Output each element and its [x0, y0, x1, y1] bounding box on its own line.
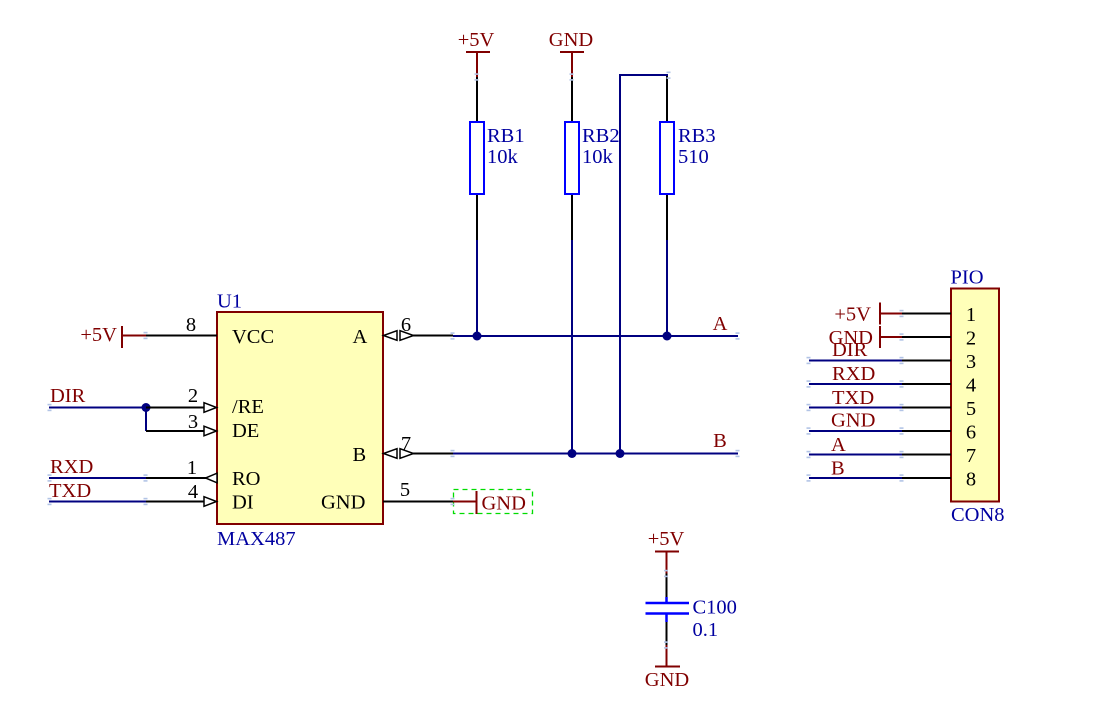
svg-text:DE: DE: [232, 420, 259, 442]
svg-text:B: B: [353, 444, 367, 466]
svg-text:3: 3: [188, 411, 198, 433]
svg-text:2: 2: [966, 328, 976, 350]
svg-text:RXD: RXD: [50, 456, 93, 478]
svg-text:RXD: RXD: [832, 363, 875, 385]
svg-text:RB3: RB3: [678, 125, 716, 147]
svg-text:8: 8: [966, 469, 976, 491]
svg-text:RB1: RB1: [487, 125, 525, 147]
svg-text:A: A: [353, 326, 368, 348]
svg-text:1: 1: [966, 304, 976, 326]
svg-text:0.1: 0.1: [693, 619, 719, 641]
svg-text:PIO: PIO: [951, 267, 984, 289]
svg-text:DIR: DIR: [50, 385, 86, 407]
svg-text:5: 5: [400, 479, 410, 501]
svg-text:+5V: +5V: [648, 528, 685, 550]
svg-text:4: 4: [188, 481, 198, 503]
svg-text:/RE: /RE: [232, 396, 264, 418]
svg-text:6: 6: [966, 422, 976, 444]
svg-text:GND: GND: [549, 29, 593, 51]
svg-text:GND: GND: [645, 669, 689, 691]
svg-text:+5V: +5V: [458, 29, 495, 51]
svg-text:+5V: +5V: [834, 304, 871, 326]
svg-text:5: 5: [966, 398, 976, 420]
svg-text:A: A: [713, 313, 728, 335]
svg-text:3: 3: [966, 351, 976, 373]
svg-text:A: A: [831, 434, 846, 456]
svg-text:VCC: VCC: [232, 326, 274, 348]
svg-text:8: 8: [186, 314, 196, 336]
svg-text:MAX487: MAX487: [217, 528, 296, 550]
svg-text:GND: GND: [321, 492, 365, 514]
svg-text:10k: 10k: [582, 146, 614, 168]
svg-text:+5V: +5V: [80, 324, 117, 346]
svg-text:B: B: [713, 430, 727, 452]
svg-text:TXD: TXD: [832, 387, 874, 409]
svg-text:GND: GND: [831, 410, 875, 432]
svg-text:2: 2: [188, 385, 198, 407]
svg-text:510: 510: [678, 146, 709, 168]
svg-text:4: 4: [966, 375, 976, 397]
svg-text:10k: 10k: [487, 146, 519, 168]
svg-text:1: 1: [187, 457, 197, 479]
svg-text:7: 7: [966, 445, 976, 467]
svg-text:C100: C100: [693, 597, 737, 619]
svg-text:DI: DI: [232, 492, 254, 514]
svg-text:CON8: CON8: [951, 504, 1005, 526]
svg-text:TXD: TXD: [49, 480, 91, 502]
svg-text:DIR: DIR: [832, 339, 868, 361]
svg-text:U1: U1: [217, 291, 242, 313]
svg-text:RB2: RB2: [582, 125, 620, 147]
svg-text:B: B: [831, 458, 845, 480]
svg-text:GND: GND: [482, 493, 526, 515]
svg-text:RO: RO: [232, 468, 260, 490]
